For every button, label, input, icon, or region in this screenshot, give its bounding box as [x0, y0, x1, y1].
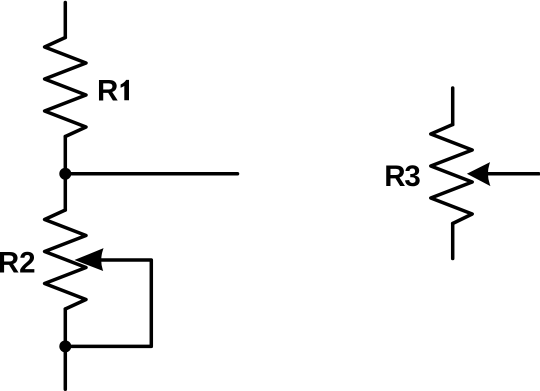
wire: top lead of R1	[64, 3, 68, 38]
svg-text:R2: R2	[0, 247, 36, 280]
wiper arrow of R2	[77, 250, 103, 270]
svg-text:R: R	[97, 74, 118, 107]
potentiometer R2	[45, 210, 86, 309]
wire: top lead of R3	[451, 88, 455, 125]
wire: bottom lead of R3	[451, 224, 455, 259]
potentiometer R3	[431, 125, 472, 224]
wire: R1 bottom to node A	[64, 137, 68, 174]
node B (junction dot)	[59, 340, 71, 352]
wire: node A down to R2 top	[64, 174, 68, 210]
resistor R1	[45, 38, 86, 137]
wire: bottom lead below node B	[64, 346, 68, 389]
wire: R3 wiper to right edge	[484, 172, 539, 176]
wire: R2 wiper to node B (loop right and down)	[65, 260, 151, 346]
svg-text:R3: R3	[384, 160, 420, 193]
wire: node A to the right	[65, 172, 237, 176]
wiper arrow of R3	[469, 164, 490, 185]
wire: R2 bottom lead to node B	[64, 309, 68, 346]
node A (junction dot)	[59, 168, 71, 180]
